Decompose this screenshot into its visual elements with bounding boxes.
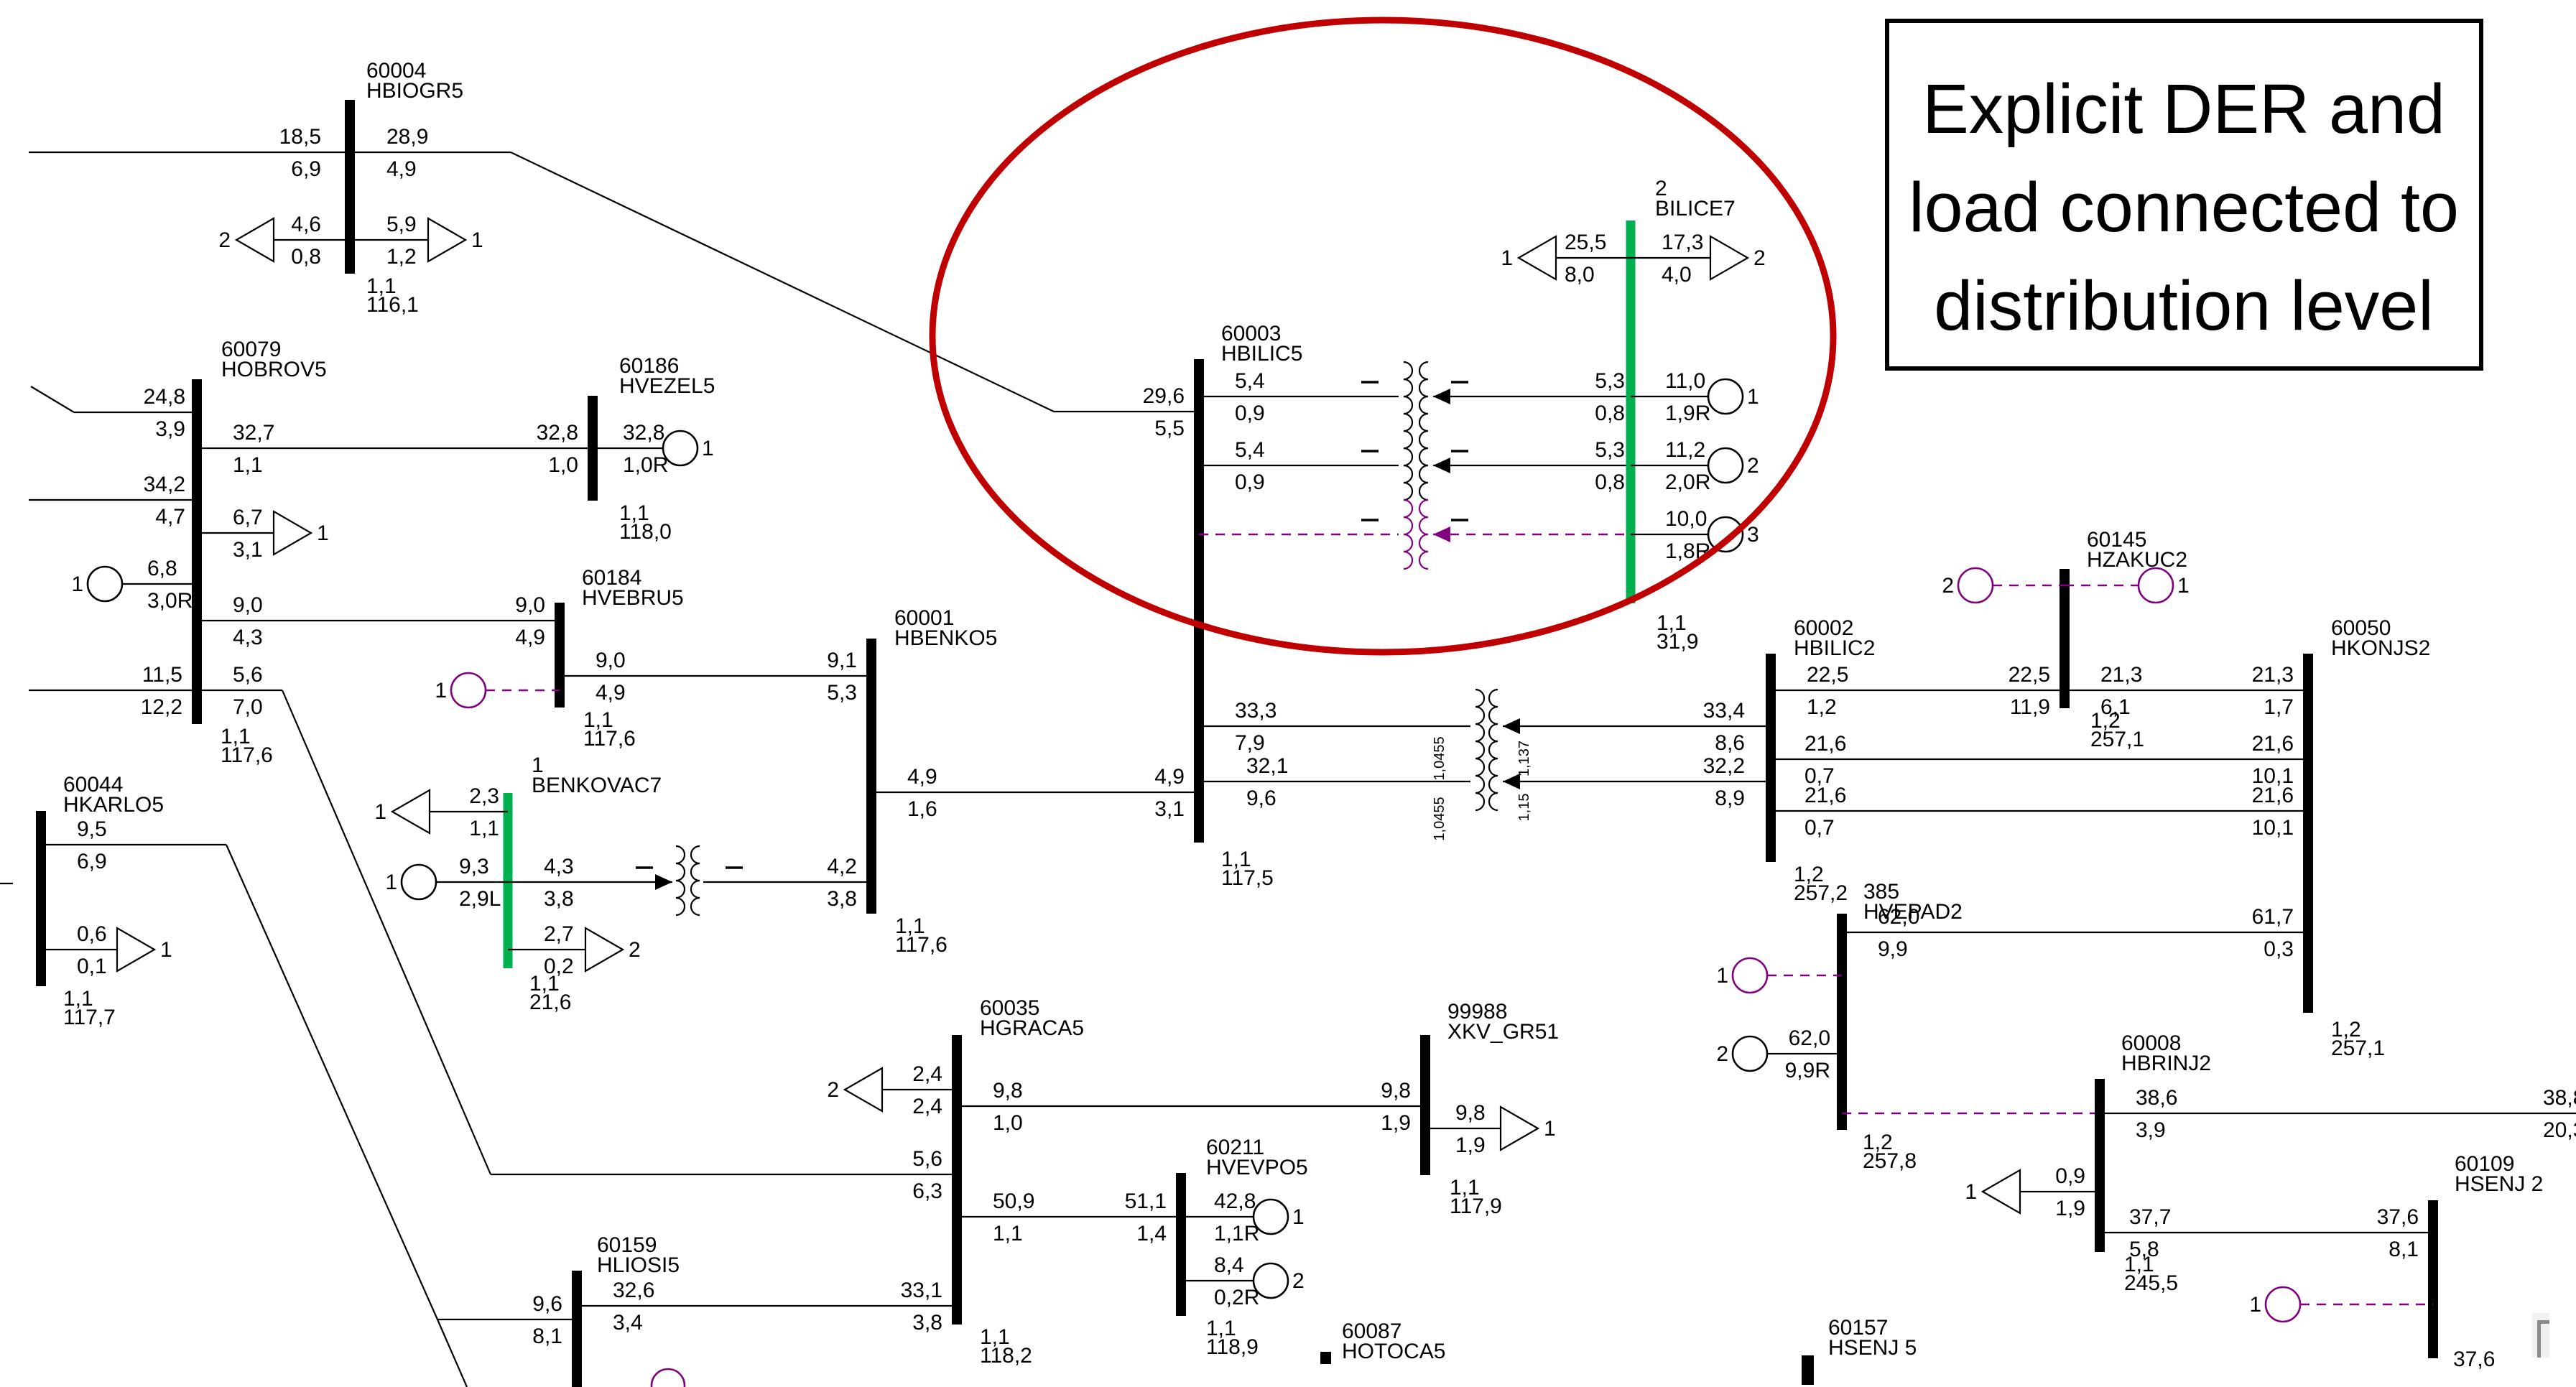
flow labels 32,8/1,0 <box>537 421 578 477</box>
flow labels 6,8/3,0R <box>147 557 193 613</box>
wire HBENKO5 to HBILIC5 <box>871 792 1199 793</box>
flow labels 4,6/0,8 <box>291 213 321 269</box>
svg-text:21,6: 21,6 <box>2252 732 2294 756</box>
svg-text:1: 1 <box>2177 574 2190 598</box>
svg-text:8,1: 8,1 <box>532 1325 562 1348</box>
svg-text:0,7: 0,7 <box>1804 816 1835 840</box>
flow labels 9,0/4,9 <box>596 649 626 705</box>
svg-text:38,8: 38,8 <box>2543 1086 2576 1110</box>
svg-text:1,1R: 1,1R <box>1214 1222 1259 1245</box>
svg-text:1,6: 1,6 <box>907 797 937 821</box>
generator 1 at HZAKUC2 <box>2139 568 2190 603</box>
svg-text:2: 2 <box>1716 1042 1728 1066</box>
svg-text:1: 1 <box>1716 964 1728 988</box>
flow labels 33,3/7,9 <box>1235 699 1277 755</box>
svg-text:4,3: 4,3 <box>233 626 263 649</box>
bus voltage label HGRACA5 <box>980 1325 1032 1368</box>
wire trafo line1 right <box>1503 725 1771 727</box>
flow labels HBIOGR5 line right side 28,9/4,9 <box>386 125 428 181</box>
red ellipse annotation <box>932 20 1833 652</box>
flow labels 0,6/0,1 <box>77 922 107 978</box>
generator 2 at HVEVPO5 <box>1254 1263 1305 1298</box>
svg-text:117,9: 117,9 <box>1450 1195 1502 1218</box>
svg-text:BILICE7: BILICE7 <box>1655 197 1736 221</box>
svg-text:HVEVPO5: HVEVPO5 <box>1206 1156 1308 1179</box>
svg-text:HBILIC2: HBILIC2 <box>1794 636 1875 660</box>
svg-text:2: 2 <box>1942 574 1954 598</box>
svg-text:1,9: 1,9 <box>2055 1197 2085 1220</box>
svg-text:2,7: 2,7 <box>544 922 574 946</box>
flow labels 22,5/1,2 <box>1807 663 1848 719</box>
svg-text:0,9: 0,9 <box>1235 402 1265 425</box>
svg-text:1: 1 <box>1501 246 1513 270</box>
svg-text:2,0R: 2,0R <box>1665 470 1710 494</box>
svg-text:2,3: 2,3 <box>469 784 499 808</box>
wire BENKOVAC7 to transformer <box>508 881 672 883</box>
wire dashed machine1 to HVEPAD2 <box>1767 975 1842 976</box>
wire dashed HBILIC5 trafo branch3 left <box>1199 534 1399 535</box>
wire HGRACA5 to HVEVPO5 <box>957 1216 1181 1217</box>
svg-text:18,5: 18,5 <box>279 125 321 149</box>
svg-text:HZAKUC2: HZAKUC2 <box>2087 548 2187 572</box>
wire HGRACA5 load line <box>882 1089 957 1090</box>
svg-text:33,3: 33,3 <box>1235 699 1277 723</box>
svg-text:HBIOGR5: HBIOGR5 <box>366 79 463 103</box>
flow labels 24,8/3,9 <box>144 385 185 441</box>
svg-text:117,7: 117,7 <box>63 1006 116 1029</box>
wire HBILIC5-HBILIC2 trafo line1 left <box>1199 725 1470 727</box>
svg-text:HSENJ 2: HSENJ 2 <box>2455 1172 2543 1196</box>
svg-text:11,2: 11,2 <box>1665 438 1705 462</box>
bus 60145 HZAKUC2 <box>2060 569 2070 708</box>
svg-text:21,3: 21,3 <box>2100 663 2142 687</box>
svg-text:50,9: 50,9 <box>993 1189 1034 1213</box>
load 1 at BILICE7 <box>1501 236 1556 279</box>
svg-text:load connected to: load connected to <box>1909 168 2459 246</box>
svg-text:1,15: 1,15 <box>1516 794 1532 822</box>
wire trafo branch1 right <box>1433 396 1631 397</box>
svg-text:6,3: 6,3 <box>912 1179 942 1203</box>
svg-text:8,4: 8,4 <box>1214 1253 1244 1277</box>
svg-text:9,3: 9,3 <box>459 855 489 878</box>
wire HKARLO5 load line <box>41 949 117 950</box>
svg-text:20,3: 20,3 <box>2543 1118 2576 1142</box>
bus 99988 XKV_GR51 <box>1420 1035 1430 1175</box>
svg-text:6,7: 6,7 <box>233 506 263 529</box>
svg-text:25,5: 25,5 <box>1565 231 1606 254</box>
flow labels 9,8/1,9 <box>1455 1101 1486 1157</box>
svg-text:8,9: 8,9 <box>1715 787 1745 810</box>
load 2 at BILICE7 <box>1710 236 1766 279</box>
svg-text:1,0455: 1,0455 <box>1432 797 1447 840</box>
svg-text:62,0: 62,0 <box>1789 1026 1830 1050</box>
svg-text:37,7: 37,7 <box>2129 1205 2171 1229</box>
flow labels 9,5/6,9 <box>77 817 107 873</box>
bus 60186 HVEZEL5 <box>588 396 598 501</box>
flow labels 17,3/4,0 <box>1662 231 1703 287</box>
svg-text:1: 1 <box>1292 1205 1305 1229</box>
svg-text:6,9: 6,9 <box>77 850 107 873</box>
generator 3 at BILICE7 <box>1708 517 1759 552</box>
svg-text:9,0: 9,0 <box>233 593 263 617</box>
svg-text:11,9: 11,9 <box>2010 695 2050 719</box>
bus 60109 HSENJ 2 <box>2428 1200 2438 1358</box>
wire dashed machine2 to HZAKUC2 <box>1993 585 2065 586</box>
load 1 at XKV_GR51 <box>1501 1107 1556 1150</box>
svg-text:0,1: 0,1 <box>77 955 107 978</box>
bus 60004 HBIOGR5 <box>345 100 355 274</box>
svg-text:1: 1 <box>2249 1293 2261 1317</box>
flow labels 8,4/0,2R <box>1214 1253 1259 1309</box>
flow labels 5,6/7,0 <box>233 663 263 719</box>
bus voltage label HSENJ2 <box>2453 1347 2495 1371</box>
flow labels 5,3/0,8 branch1 <box>1595 369 1625 425</box>
flow labels 0,9/1,9 <box>2055 1164 2085 1220</box>
svg-text:3,4: 3,4 <box>613 1311 643 1335</box>
flow labels 38,8/20,3 clipped at edge <box>2543 1086 2576 1142</box>
svg-text:4,9: 4,9 <box>596 681 626 705</box>
svg-text:5,6: 5,6 <box>912 1147 942 1171</box>
bus 60050 HKONJS2 <box>2303 654 2313 1013</box>
generator 1 at HVEZEL5 <box>663 431 714 465</box>
bus name label 385 HVEPAD2 <box>1863 880 1963 924</box>
svg-text:0,9: 0,9 <box>1235 470 1265 494</box>
svg-text:42,8: 42,8 <box>1214 1189 1256 1213</box>
flow labels 33,1/3,8 at HGRACA5 end <box>901 1279 942 1335</box>
flow labels 32,1/9,6 <box>1246 754 1288 810</box>
svg-text:3: 3 <box>1747 523 1759 547</box>
wire HBILIC5 trafo branch2 left <box>1199 465 1399 466</box>
flow labels 5,9/1,2 <box>386 213 417 269</box>
flow labels 34,2/4,7 <box>144 473 185 529</box>
svg-text:5,4: 5,4 <box>1235 369 1265 393</box>
bus voltage label HVEVPO5 <box>1206 1317 1259 1359</box>
bus voltage label HVEPAD2 <box>1863 1131 1917 1173</box>
svg-text:5,3: 5,3 <box>1595 369 1625 393</box>
svg-text:7,0: 7,0 <box>233 695 263 719</box>
grey window corner artifact <box>2532 1313 2549 1358</box>
svg-text:4,6: 4,6 <box>291 213 321 236</box>
wire transformer to HBENKO5 <box>703 881 871 883</box>
svg-text:21,6: 21,6 <box>529 991 571 1014</box>
svg-text:3,1: 3,1 <box>1154 797 1185 821</box>
bus 60008 HBRINJ2 <box>2095 1079 2105 1252</box>
svg-text:1,2: 1,2 <box>1807 695 1837 719</box>
bus voltage label HBRINJ2 <box>2124 1253 2178 1295</box>
wire stub at HKARLO5 <box>0 883 13 884</box>
svg-text:9,6: 9,6 <box>532 1292 562 1316</box>
bus voltage label HZAKUC2 <box>2090 709 2144 751</box>
svg-text:9,0: 9,0 <box>596 649 626 672</box>
generator 1 at HSENJ2 <box>2249 1287 2300 1322</box>
bus 60001 HBENKO5 <box>866 639 876 914</box>
bus name label 60001 HBENKO5 <box>894 606 997 650</box>
bus voltage label HKONJS2 <box>2331 1018 2385 1060</box>
svg-text:9,9R: 9,9R <box>1785 1059 1830 1082</box>
load 1 at HBIOGR5 <box>428 218 483 261</box>
svg-text:245,5: 245,5 <box>2124 1271 2178 1295</box>
flow labels 21,6/0,7 line3 <box>1804 784 1846 840</box>
wire BENKOVAC7 load line left <box>430 811 508 812</box>
bus name label 60008 HBRINJ2 <box>2121 1031 2211 1075</box>
svg-text:1,7: 1,7 <box>2264 695 2294 719</box>
svg-text:1,9R: 1,9R <box>1665 402 1710 425</box>
svg-text:37,6: 37,6 <box>2453 1347 2495 1371</box>
svg-text:1: 1 <box>1965 1180 1977 1204</box>
svg-text:HKONJS2: HKONJS2 <box>2331 636 2430 660</box>
svg-text:1,1: 1,1 <box>233 453 263 477</box>
svg-text:62,0: 62,0 <box>1878 905 1919 929</box>
bus name label 60159 HLIOSI5 <box>597 1233 680 1277</box>
svg-text:HBENKO5: HBENKO5 <box>894 626 997 650</box>
svg-text:17,3: 17,3 <box>1662 231 1703 254</box>
svg-text:1: 1 <box>471 228 483 252</box>
flow labels 9,1/5,3 at HBENKO5 end <box>827 649 857 705</box>
generator 1 at HVEBRU5 <box>435 673 486 708</box>
wire BENKOVAC7 load line right <box>508 949 585 950</box>
wire generator to HOBROV5 <box>122 583 197 585</box>
flow labels 37,7/5,8 <box>2129 1205 2171 1261</box>
svg-text:32,7: 32,7 <box>233 421 274 445</box>
svg-text:HKARLO5: HKARLO5 <box>63 793 164 817</box>
svg-text:3,9: 3,9 <box>155 417 185 441</box>
load 1 at HBRINJ2 <box>1965 1170 2020 1213</box>
wire dashed generator to HVEBRU5 <box>486 690 560 691</box>
generator 1 at BILICE7 <box>1708 379 1759 414</box>
svg-text:5,9: 5,9 <box>386 213 417 236</box>
svg-text:24,8: 24,8 <box>144 385 185 409</box>
wire HBRINJ2 line to right edge <box>2100 1113 2576 1114</box>
svg-text:1,4: 1,4 <box>1136 1222 1167 1245</box>
wire HLIOSI5 to HGRACA5 <box>577 1305 957 1307</box>
svg-text:0,9: 0,9 <box>2055 1164 2085 1188</box>
bus name label 99988 XKV_GR51 <box>1447 1000 1559 1044</box>
flow labels 32,2/8,9 <box>1703 754 1745 810</box>
flow labels 2,4/2,4 <box>912 1062 942 1118</box>
bus name label 60186 HVEZEL5 <box>619 354 715 398</box>
wire HBILIC5 trafo branch1 left <box>1199 396 1399 397</box>
svg-text:21,6: 21,6 <box>2252 784 2294 807</box>
wire trafo branch2 right <box>1433 465 1631 466</box>
flow labels 9,0/4,9 at HVEBRU5 end <box>515 593 545 649</box>
wire BILICE7 load line <box>1556 257 1710 259</box>
generator 1 at HVEPAD2 <box>1716 958 1767 993</box>
svg-text:10,0: 10,0 <box>1665 507 1707 531</box>
flow labels 5,6/6,3 at HGRACA5 end <box>912 1147 942 1203</box>
svg-text:11,0: 11,0 <box>1665 369 1705 393</box>
flow labels 25,5/8,0 <box>1565 231 1606 287</box>
svg-text:32,2: 32,2 <box>1703 754 1745 778</box>
bus voltage label HBIOGR5 <box>366 274 419 317</box>
svg-text:HOTOCA5: HOTOCA5 <box>1342 1340 1445 1363</box>
bus 60157 HSENJ 5 stub <box>1802 1355 1814 1385</box>
svg-text:HOBROV5: HOBROV5 <box>221 358 327 381</box>
svg-text:8,6: 8,6 <box>1715 731 1745 755</box>
flow labels 9,6/8,1 at HLIOSI5 end <box>532 1292 562 1348</box>
svg-text:11,5: 11,5 <box>142 663 182 687</box>
svg-text:7,9: 7,9 <box>1235 731 1265 755</box>
svg-text:3,1: 3,1 <box>233 538 263 562</box>
svg-text:1,0455: 1,0455 <box>1432 736 1447 780</box>
bus name label 60004 HBIOGR5 <box>366 59 463 103</box>
svg-text:21,6: 21,6 <box>1804 732 1846 756</box>
svg-text:1,9: 1,9 <box>1381 1111 1411 1135</box>
svg-text:117,6: 117,6 <box>583 727 636 751</box>
svg-text:117,5: 117,5 <box>1221 866 1274 890</box>
flow labels 4,2/3,8 <box>827 855 857 911</box>
bus voltage label XKV_GR51 <box>1450 1176 1502 1218</box>
svg-text:HBILIC5: HBILIC5 <box>1221 342 1302 366</box>
flow labels 33,4/8,6 <box>1703 699 1745 755</box>
svg-text:118,9: 118,9 <box>1206 1335 1259 1359</box>
svg-text:HBRINJ2: HBRINJ2 <box>2121 1052 2211 1075</box>
generator 2 at HZAKUC2 <box>1942 568 1993 603</box>
flow labels 9,0/4,3 <box>233 593 263 649</box>
bus 60079 HOBROV5 <box>192 379 202 724</box>
bus name label 60044 HKARLO5 <box>63 773 164 817</box>
bus name label 60050 HKONJS2 <box>2331 616 2430 660</box>
bus name label 60003 HBILIC5 <box>1221 322 1302 366</box>
svg-text:118,0: 118,0 <box>619 520 672 544</box>
svg-text:3,9: 3,9 <box>2136 1118 2166 1142</box>
svg-text:5,6: 5,6 <box>233 663 263 687</box>
bus name label 60035 HGRACA5 <box>980 996 1084 1040</box>
svg-text:2: 2 <box>1747 454 1759 478</box>
svg-text:9,8: 9,8 <box>1381 1079 1411 1103</box>
svg-text:9,6: 9,6 <box>1246 787 1277 810</box>
flow labels 2,3/1,1 <box>469 784 499 840</box>
flow labels 4,9/1,6 <box>907 765 937 821</box>
svg-text:0,8: 0,8 <box>1595 470 1625 494</box>
svg-text:1: 1 <box>1544 1117 1556 1141</box>
flow labels 9,8/1,0 <box>993 1079 1023 1135</box>
bus 2 BILICE7 <box>1626 221 1636 603</box>
wire HVEZEL5 to generator <box>593 447 663 449</box>
svg-text:32,6: 32,6 <box>613 1279 654 1302</box>
svg-text:12,2: 12,2 <box>141 695 182 719</box>
svg-text:1: 1 <box>160 938 172 962</box>
svg-text:1: 1 <box>385 871 397 894</box>
wire BILICE7 to machine 3 <box>1631 534 1708 535</box>
wire BILICE7 to machine 1 <box>1631 396 1708 397</box>
svg-text:1,1: 1,1 <box>469 817 499 840</box>
flow labels 21,3/6,1 <box>2100 663 2142 719</box>
svg-text:257,1: 257,1 <box>2090 728 2144 751</box>
svg-text:3,8: 3,8 <box>912 1311 942 1335</box>
flow labels 37,6/8,1 at HSENJ2 end <box>2377 1205 2419 1261</box>
svg-text:1,0: 1,0 <box>548 453 578 477</box>
flow labels 5,3/0,8 branch2 <box>1595 438 1625 494</box>
svg-text:9,0: 9,0 <box>515 593 545 617</box>
bus name label 60109 HSENJ 2 <box>2455 1152 2543 1196</box>
flow labels 50,9/1,1 <box>993 1189 1034 1245</box>
flow labels 21,3/1,7 at HKONJS2 end <box>2252 663 2294 719</box>
bus voltage label HOBROV5 <box>221 725 273 767</box>
wire HOBROV5 line 34,2 <box>29 499 197 501</box>
svg-text:21,6: 21,6 <box>1804 784 1846 807</box>
svg-text:4,7: 4,7 <box>155 505 185 529</box>
bus 60044 HKARLO5 <box>36 811 46 986</box>
wire HVEVPO5 to machine 1 <box>1181 1216 1254 1217</box>
bus 60087 HOTOCA5 stub <box>1320 1352 1331 1364</box>
svg-text:0,8: 0,8 <box>1595 402 1625 425</box>
svg-text:118,2: 118,2 <box>980 1344 1032 1368</box>
load 1 at BENKOVAC7 <box>374 790 430 833</box>
svg-text:117,6: 117,6 <box>221 743 273 767</box>
svg-text:2: 2 <box>1753 246 1766 270</box>
flow labels 21,6/10,1 line2 <box>2252 732 2294 788</box>
flow labels 11,2/2,0R <box>1665 438 1710 494</box>
svg-text:21,3: 21,3 <box>2252 663 2294 687</box>
svg-text:4,9: 4,9 <box>386 157 417 181</box>
svg-text:4,9: 4,9 <box>1154 765 1185 789</box>
svg-text:1: 1 <box>435 679 447 702</box>
flow labels 4,9/3,1 at HBILIC5 end <box>1154 765 1185 821</box>
flow labels 42,8/1,1R <box>1214 1189 1259 1245</box>
flow labels 4,3/3,8 <box>544 855 574 911</box>
wire HBILIC5-HBILIC2 trafo line2 left <box>1199 781 1470 782</box>
svg-text:2,4: 2,4 <box>912 1062 942 1086</box>
svg-text:8,0: 8,0 <box>1565 263 1595 287</box>
bus name label 60157 HSENJ 5 <box>1828 1316 1917 1360</box>
svg-text:HLIOSI5: HLIOSI5 <box>597 1253 680 1277</box>
svg-text:32,1: 32,1 <box>1246 754 1288 778</box>
load 1 at HKARLO5 <box>117 928 172 971</box>
transformer 2-branch HBILIC5-HBILIC2 <box>1475 690 1520 810</box>
svg-text:257,1: 257,1 <box>2331 1036 2385 1060</box>
wire HOBROV5 to HVEBRU5 <box>197 620 560 621</box>
bus name label 60145 HZAKUC2 <box>2087 528 2187 572</box>
bus voltage label HBILIC5 <box>1221 848 1274 890</box>
svg-text:116,1: 116,1 <box>366 293 419 317</box>
svg-text:6,8: 6,8 <box>147 557 177 580</box>
flow labels 32,8/1,0R <box>623 421 668 477</box>
generator 1 at HVEVPO5 <box>1254 1200 1305 1234</box>
svg-text:2: 2 <box>827 1078 839 1102</box>
flow labels 10,0/1,8R <box>1665 507 1710 563</box>
flow labels 29,6/5,5 incoming line <box>1143 384 1185 440</box>
bus voltage label HVEBRU5 <box>583 708 636 751</box>
svg-text:3,8: 3,8 <box>827 887 857 911</box>
svg-text:34,2: 34,2 <box>144 473 185 496</box>
svg-text:1: 1 <box>702 437 714 460</box>
load 2 at BENKOVAC7 <box>585 928 641 971</box>
flow labels 5,4/0,9 branch1 <box>1235 369 1265 425</box>
svg-text:1,137: 1,137 <box>1516 741 1532 776</box>
svg-text:38,6: 38,6 <box>2136 1086 2177 1110</box>
wire HBRINJ2 load line <box>2020 1191 2100 1192</box>
wire trafo line2 right <box>1503 781 1771 782</box>
svg-text:2,4: 2,4 <box>912 1095 942 1118</box>
svg-text:2: 2 <box>218 228 231 252</box>
flow labels 22,5/11,9 at HZAKUC2 end <box>2009 663 2050 719</box>
svg-text:1: 1 <box>1747 385 1759 409</box>
svg-text:28,9: 28,9 <box>386 125 428 149</box>
svg-text:1: 1 <box>374 800 386 824</box>
wire BILICE7 to machine 2 <box>1631 465 1708 466</box>
svg-text:6,9: 6,9 <box>291 157 321 181</box>
bus name label 60079 HOBROV5 <box>221 338 327 381</box>
svg-text:4,3: 4,3 <box>544 855 574 878</box>
flow labels 11,0/1,9R <box>1665 369 1710 425</box>
bus voltage label BENKOVAC7 <box>529 972 571 1014</box>
svg-text:4,9: 4,9 <box>907 765 937 789</box>
generator 1 at BENKOVAC7 <box>385 865 436 899</box>
svg-text:5,3: 5,3 <box>1595 438 1625 462</box>
svg-text:1,2: 1,2 <box>386 245 417 269</box>
bus name label 60184 HVEBRU5 <box>582 566 684 610</box>
transformer 3-winding HBILIC5-BILICE7 <box>1361 362 1468 569</box>
